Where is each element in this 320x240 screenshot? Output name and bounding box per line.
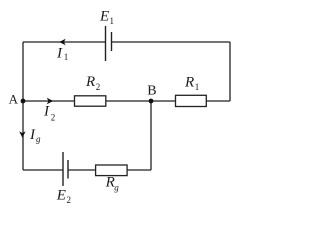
svg-text:I: I <box>43 104 50 120</box>
svg-text:I: I <box>56 45 63 61</box>
svg-text:R: R <box>105 175 115 191</box>
svg-text:g: g <box>114 182 119 192</box>
svg-text:R: R <box>184 74 194 90</box>
svg-text:B: B <box>147 84 156 99</box>
svg-text:A: A <box>9 92 19 107</box>
svg-text:1: 1 <box>110 16 115 26</box>
svg-text:I: I <box>29 127 36 143</box>
svg-text:1: 1 <box>195 82 200 92</box>
svg-text:E: E <box>56 187 66 203</box>
svg-text:R: R <box>85 74 95 90</box>
svg-text:g: g <box>36 134 41 144</box>
svg-text:2: 2 <box>67 195 72 205</box>
svg-text:E: E <box>99 9 109 25</box>
svg-text:2: 2 <box>96 82 101 92</box>
svg-text:2: 2 <box>51 112 56 122</box>
svg-text:1: 1 <box>64 52 69 62</box>
